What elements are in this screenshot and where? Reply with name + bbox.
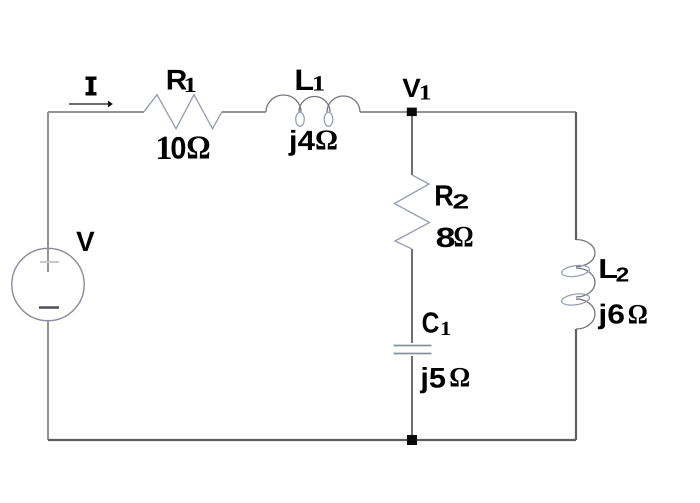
wire top-left horizontal — [48, 111, 144, 113]
svg-text:C: C — [422, 307, 440, 339]
svg-text:R: R — [434, 179, 454, 213]
label C1 — [422, 307, 452, 340]
value j4 ohm — [288, 124, 338, 157]
inductor L2 — [561, 240, 595, 330]
wire between R1 and L1 — [222, 111, 266, 113]
label R1 — [166, 63, 197, 98]
svg-text:Ω: Ω — [449, 361, 470, 393]
value 10 ohm — [155, 129, 210, 168]
svg-text:0: 0 — [170, 131, 186, 165]
svg-text:Ω: Ω — [453, 220, 473, 254]
value j6 ohm — [597, 298, 648, 330]
svg-text:1: 1 — [312, 72, 326, 96]
value j5 ohm — [419, 361, 470, 394]
wire from L1 to right top corner — [360, 111, 576, 113]
wire left vertical lower — [47, 320, 49, 440]
voltage source V circle — [12, 248, 84, 320]
svg-text:j4: j4 — [288, 125, 315, 156]
svg-text:Ω: Ω — [186, 129, 210, 167]
wire bottom horizontal — [48, 439, 576, 441]
label I — [86, 77, 97, 96]
inductor L1 — [266, 95, 360, 126]
svg-text:Ω: Ω — [628, 298, 648, 330]
wire middle vertical C1 to bottom node — [411, 356, 413, 440]
label L2 — [598, 254, 629, 287]
node V1 square — [407, 108, 417, 117]
minus sign — [39, 306, 59, 309]
svg-text:j6: j6 — [597, 299, 625, 330]
resistor R2 — [395, 175, 430, 249]
label L1 — [294, 64, 325, 97]
capacitor C1 — [394, 346, 432, 354]
svg-text:j5: j5 — [419, 362, 446, 393]
svg-text:2: 2 — [616, 264, 630, 286]
wire right vertical upper — [575, 112, 577, 240]
svg-text:V: V — [76, 225, 95, 257]
svg-text:1: 1 — [183, 74, 197, 98]
svg-text:Ω: Ω — [315, 124, 338, 157]
resistor R1 — [144, 95, 222, 129]
svg-text:1: 1 — [440, 318, 451, 340]
wire left vertical upper — [47, 112, 49, 272]
bottom node square — [407, 435, 417, 445]
current arrow I — [69, 101, 113, 108]
svg-text:1: 1 — [419, 82, 432, 106]
svg-text:8: 8 — [436, 222, 456, 254]
wire middle vertical node V1 to R2 — [411, 112, 413, 175]
wire middle vertical R2 to C1 — [411, 249, 413, 343]
label V1 — [402, 73, 431, 105]
label R2 — [434, 179, 469, 213]
wire right vertical lower — [575, 329, 577, 440]
plus sign — [40, 261, 59, 263]
value 8 ohm — [436, 220, 474, 254]
svg-text:2: 2 — [452, 190, 469, 213]
